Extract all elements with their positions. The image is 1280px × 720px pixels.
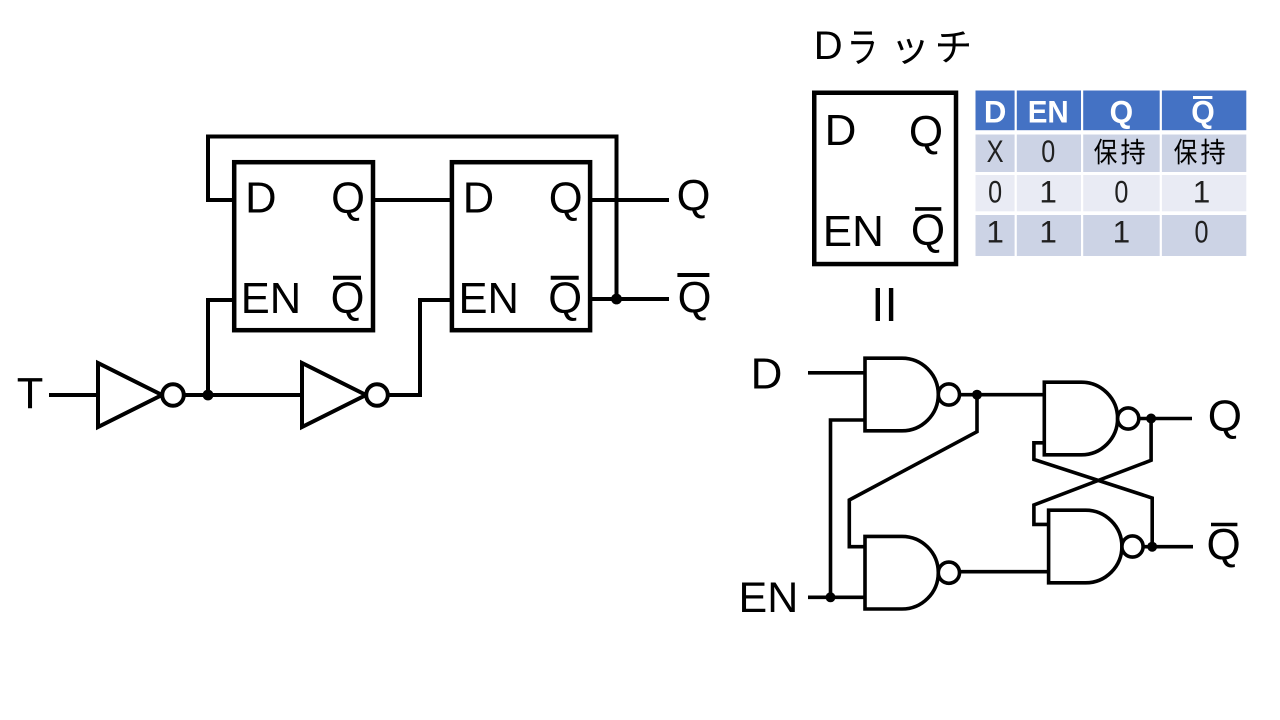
FF2 pin label Qbar bbox=[548, 275, 582, 323]
svg-text:X: X bbox=[987, 133, 1004, 169]
junction dot Q node bbox=[1146, 414, 1156, 424]
wire EN node to G1 lower input bbox=[831, 420, 867, 597]
truth table row 1 bbox=[976, 135, 1247, 173]
svg-text:EN: EN bbox=[823, 207, 884, 256]
svg-text:EN: EN bbox=[241, 275, 301, 323]
wire node A to FF1 EN bbox=[208, 300, 232, 395]
D latch symbol box bbox=[814, 93, 956, 264]
wire G1 output to G3 upper input bbox=[960, 393, 1046, 397]
title glyph ra bbox=[851, 31, 874, 64]
title glyph chi bbox=[938, 31, 969, 62]
FF1 pin label Qbar bbox=[331, 275, 365, 323]
wire Q node to G4 upper input (cross coupling) bbox=[1034, 419, 1151, 525]
svg-text:D: D bbox=[984, 93, 1007, 129]
svg-text:0: 0 bbox=[988, 174, 1002, 210]
truth table row 2 bbox=[976, 175, 1247, 211]
svg-text:Q: Q bbox=[1110, 93, 1134, 129]
wire EN to NAND G2 bbox=[808, 595, 866, 599]
svg-text:Q: Q bbox=[331, 175, 365, 223]
svg-text:EN: EN bbox=[458, 275, 518, 323]
svg-text:Q: Q bbox=[1206, 521, 1240, 570]
truth table column separators bbox=[1016, 91, 1161, 257]
inverter U2 bbox=[302, 363, 388, 427]
wire D to NAND G1 bbox=[808, 371, 866, 375]
svg-text:D: D bbox=[825, 106, 857, 155]
svg-text:Q: Q bbox=[548, 275, 582, 323]
equivalence symbol bbox=[878, 288, 891, 321]
wire FF2 Q output bbox=[590, 198, 669, 202]
label Qbar output bbox=[1206, 521, 1240, 570]
label Qbar output bbox=[677, 275, 711, 323]
svg-text:1: 1 bbox=[986, 214, 1004, 250]
svg-text:D: D bbox=[751, 349, 783, 398]
NAND gate G3 bbox=[1044, 382, 1138, 455]
wire Qbar node to G3 lower input (cross coupling) bbox=[1034, 443, 1152, 547]
glyph ho row1 col4 bbox=[1174, 139, 1197, 165]
svg-text:Q: Q bbox=[1208, 392, 1242, 441]
NAND gate G1 bbox=[865, 358, 960, 431]
svg-text:Q: Q bbox=[677, 173, 711, 221]
wire T to inverter U1 bbox=[49, 393, 99, 397]
junction dot EN node bbox=[826, 592, 836, 602]
svg-text:1: 1 bbox=[1039, 174, 1057, 210]
junction dot Qbar feedback bbox=[611, 294, 622, 305]
svg-text:T: T bbox=[17, 370, 44, 418]
wire U1 output to inverter U2 bbox=[184, 393, 302, 397]
NAND gate G4 bbox=[1049, 510, 1144, 583]
svg-text:D: D bbox=[463, 175, 494, 223]
title D latch (Dラッチ) bbox=[814, 24, 969, 68]
truth table row 3 bbox=[976, 215, 1247, 256]
junction dot Qbar node bbox=[1147, 542, 1157, 552]
svg-text:D: D bbox=[814, 24, 843, 68]
svg-text:EN: EN bbox=[1028, 93, 1069, 129]
svg-text:0: 0 bbox=[1041, 133, 1055, 169]
svg-text:0: 0 bbox=[1195, 214, 1209, 250]
symbol pin label Qbar bbox=[911, 206, 945, 255]
svg-text:1: 1 bbox=[1039, 214, 1057, 250]
inverter U1 bbox=[98, 363, 184, 427]
glyph ji row1 col3 bbox=[1121, 139, 1145, 165]
NAND gate G2 bbox=[865, 536, 960, 609]
truth table bbox=[976, 91, 1247, 257]
truth table header row bbox=[976, 91, 1247, 131]
svg-text:0: 0 bbox=[1114, 174, 1128, 210]
svg-text:D: D bbox=[245, 175, 276, 223]
truth table header text Qbar bbox=[1191, 93, 1215, 129]
svg-text:Q: Q bbox=[911, 206, 945, 255]
truth table row2 cells 0 1 0 1 bbox=[988, 174, 1210, 210]
glyph ho row1 col3 bbox=[1094, 139, 1117, 165]
svg-text:Q: Q bbox=[909, 108, 943, 157]
wire G1 output to G2 upper input bbox=[849, 395, 977, 547]
wire G4 output to Qbar bbox=[1143, 545, 1193, 549]
wire G2 output to G4 lower input bbox=[960, 570, 1050, 574]
wire U2 output to FF2 EN bbox=[388, 300, 451, 395]
title glyph small-tsu bbox=[897, 39, 924, 64]
glyph ji row1 col4 bbox=[1201, 139, 1225, 165]
svg-text:1: 1 bbox=[1113, 214, 1131, 250]
node A junction dot bbox=[203, 390, 214, 401]
wire FF1 Q to FF2 D bbox=[373, 198, 451, 202]
truth table row1 cells X 0 hoji hoji bbox=[987, 133, 1056, 169]
D latch FF2 box bbox=[452, 162, 590, 330]
truth table row3 cells 1 1 1 0 bbox=[986, 214, 1208, 250]
svg-text:Q: Q bbox=[549, 175, 583, 223]
feedback wire FF2 Qbar to FF1 D bbox=[208, 137, 617, 300]
svg-text:Q: Q bbox=[678, 275, 712, 323]
wire G3 output to Q bbox=[1139, 417, 1192, 421]
svg-text:EN: EN bbox=[739, 574, 799, 622]
wire FF2 Qbar output bbox=[590, 297, 669, 301]
D latch FF1 box bbox=[234, 162, 373, 330]
svg-text:1: 1 bbox=[1193, 174, 1211, 210]
junction dot G1 output bbox=[972, 390, 982, 400]
svg-text:Q: Q bbox=[331, 275, 365, 323]
